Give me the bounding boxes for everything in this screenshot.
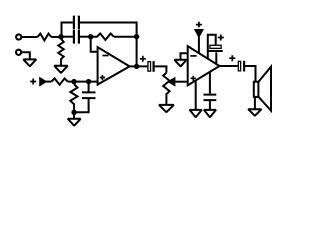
wire node B to U1 inverting input (91, 37, 98, 52)
U2 bypass pin stem (209, 72, 211, 94)
capacitor C6 negative plate (208, 50, 223, 52)
capacitor C4 positive plate (box) (238, 61, 240, 71)
potentiometer R6 (163, 73, 169, 105)
node C (134, 34, 139, 39)
supply arrow (U2) (196, 30, 203, 36)
node E (86, 79, 91, 84)
wire U2 inverting input to ground (181, 53, 188, 60)
node F (71, 110, 76, 115)
wire node A riser to feedback cap C2 (62, 23, 73, 37)
wire R2 to node C (114, 36, 137, 38)
wire C3 to volume pot (155, 66, 167, 72)
input terminal J1 (16, 34, 21, 39)
wire node A to C1 (61, 36, 73, 38)
speaker SP1 body (254, 82, 259, 97)
wire U2 output to C4 (220, 65, 238, 67)
op-amp U2 (188, 46, 220, 85)
plus label C4 (229, 55, 235, 61)
wire C2 to feedback corner and down to node G (80, 23, 137, 67)
wire C7 to ground (209, 101, 211, 110)
ground at U2 inverting input (174, 60, 186, 67)
wire J1 to R1 (22, 36, 38, 38)
ground below speaker (248, 109, 261, 116)
wire R1 to node A (51, 36, 61, 38)
capacitor C6 positive plate (box) (210, 45, 221, 48)
U2 minus label (190, 55, 196, 57)
supply plus label (bias input) (30, 79, 36, 85)
plus label C6 (218, 35, 224, 41)
capacitor C3 positive plate (box) (148, 62, 151, 72)
wire C1 to node B (80, 36, 91, 38)
wire C6 to U2 (215, 52, 217, 64)
resistor R1 (38, 34, 52, 41)
ground below U2 pin4 (190, 110, 202, 117)
wire J2 to ground (22, 52, 30, 59)
resistor R3 (node A to ground) (58, 39, 63, 66)
supply arrow (bias input) (40, 78, 45, 84)
wire supply arrow to U2 (198, 36, 200, 53)
U1 minus label (103, 55, 109, 57)
resistor R5 (bias lower) (70, 84, 77, 119)
supply plus label (U2) (196, 22, 202, 28)
capacitor C5 plates (82, 92, 96, 98)
R6 wiper arrow (169, 79, 174, 85)
ground below R6 (159, 105, 174, 112)
ground below R3 (54, 66, 67, 73)
U1 plus label (100, 75, 105, 80)
ground at J2 (23, 59, 36, 66)
resistor R2 (feedback) (91, 34, 114, 40)
capacitor C6 (gain) wire loop (208, 35, 216, 59)
U2 ground pin stem (195, 81, 197, 110)
capacitor C7 plates (204, 95, 217, 101)
capacitor C1 (series input) (74, 30, 79, 44)
wire speaker to ground (254, 97, 256, 109)
plus label C3 (140, 56, 146, 62)
wire C5 to node F (74, 99, 89, 112)
node A (58, 34, 63, 39)
capacitor C4 negative plate (243, 61, 245, 72)
ground below C7 (204, 110, 216, 117)
node G (134, 64, 139, 69)
wire wiper to U2 plus input (174, 81, 187, 83)
wire U1 output to node G (130, 65, 148, 67)
op-amp U1 (98, 47, 130, 84)
resistor R4 (bias upper) (52, 78, 68, 84)
ground terminal J2 (16, 50, 21, 55)
wire arrow to R4 (45, 81, 52, 83)
ground below R5 (68, 119, 81, 126)
wire R4 to node D to node E to U1 plus input (68, 81, 98, 83)
capacitor C5 (bias bypass) stem (88, 82, 90, 92)
capacitor C2 (feedback) (74, 16, 79, 30)
node D (71, 79, 76, 84)
wire C4 to speaker (245, 66, 255, 82)
node B (88, 34, 93, 39)
capacitor C3 negative plate (153, 61, 155, 72)
U2 plus label (191, 76, 196, 81)
speaker SP1 cone (258, 67, 271, 111)
